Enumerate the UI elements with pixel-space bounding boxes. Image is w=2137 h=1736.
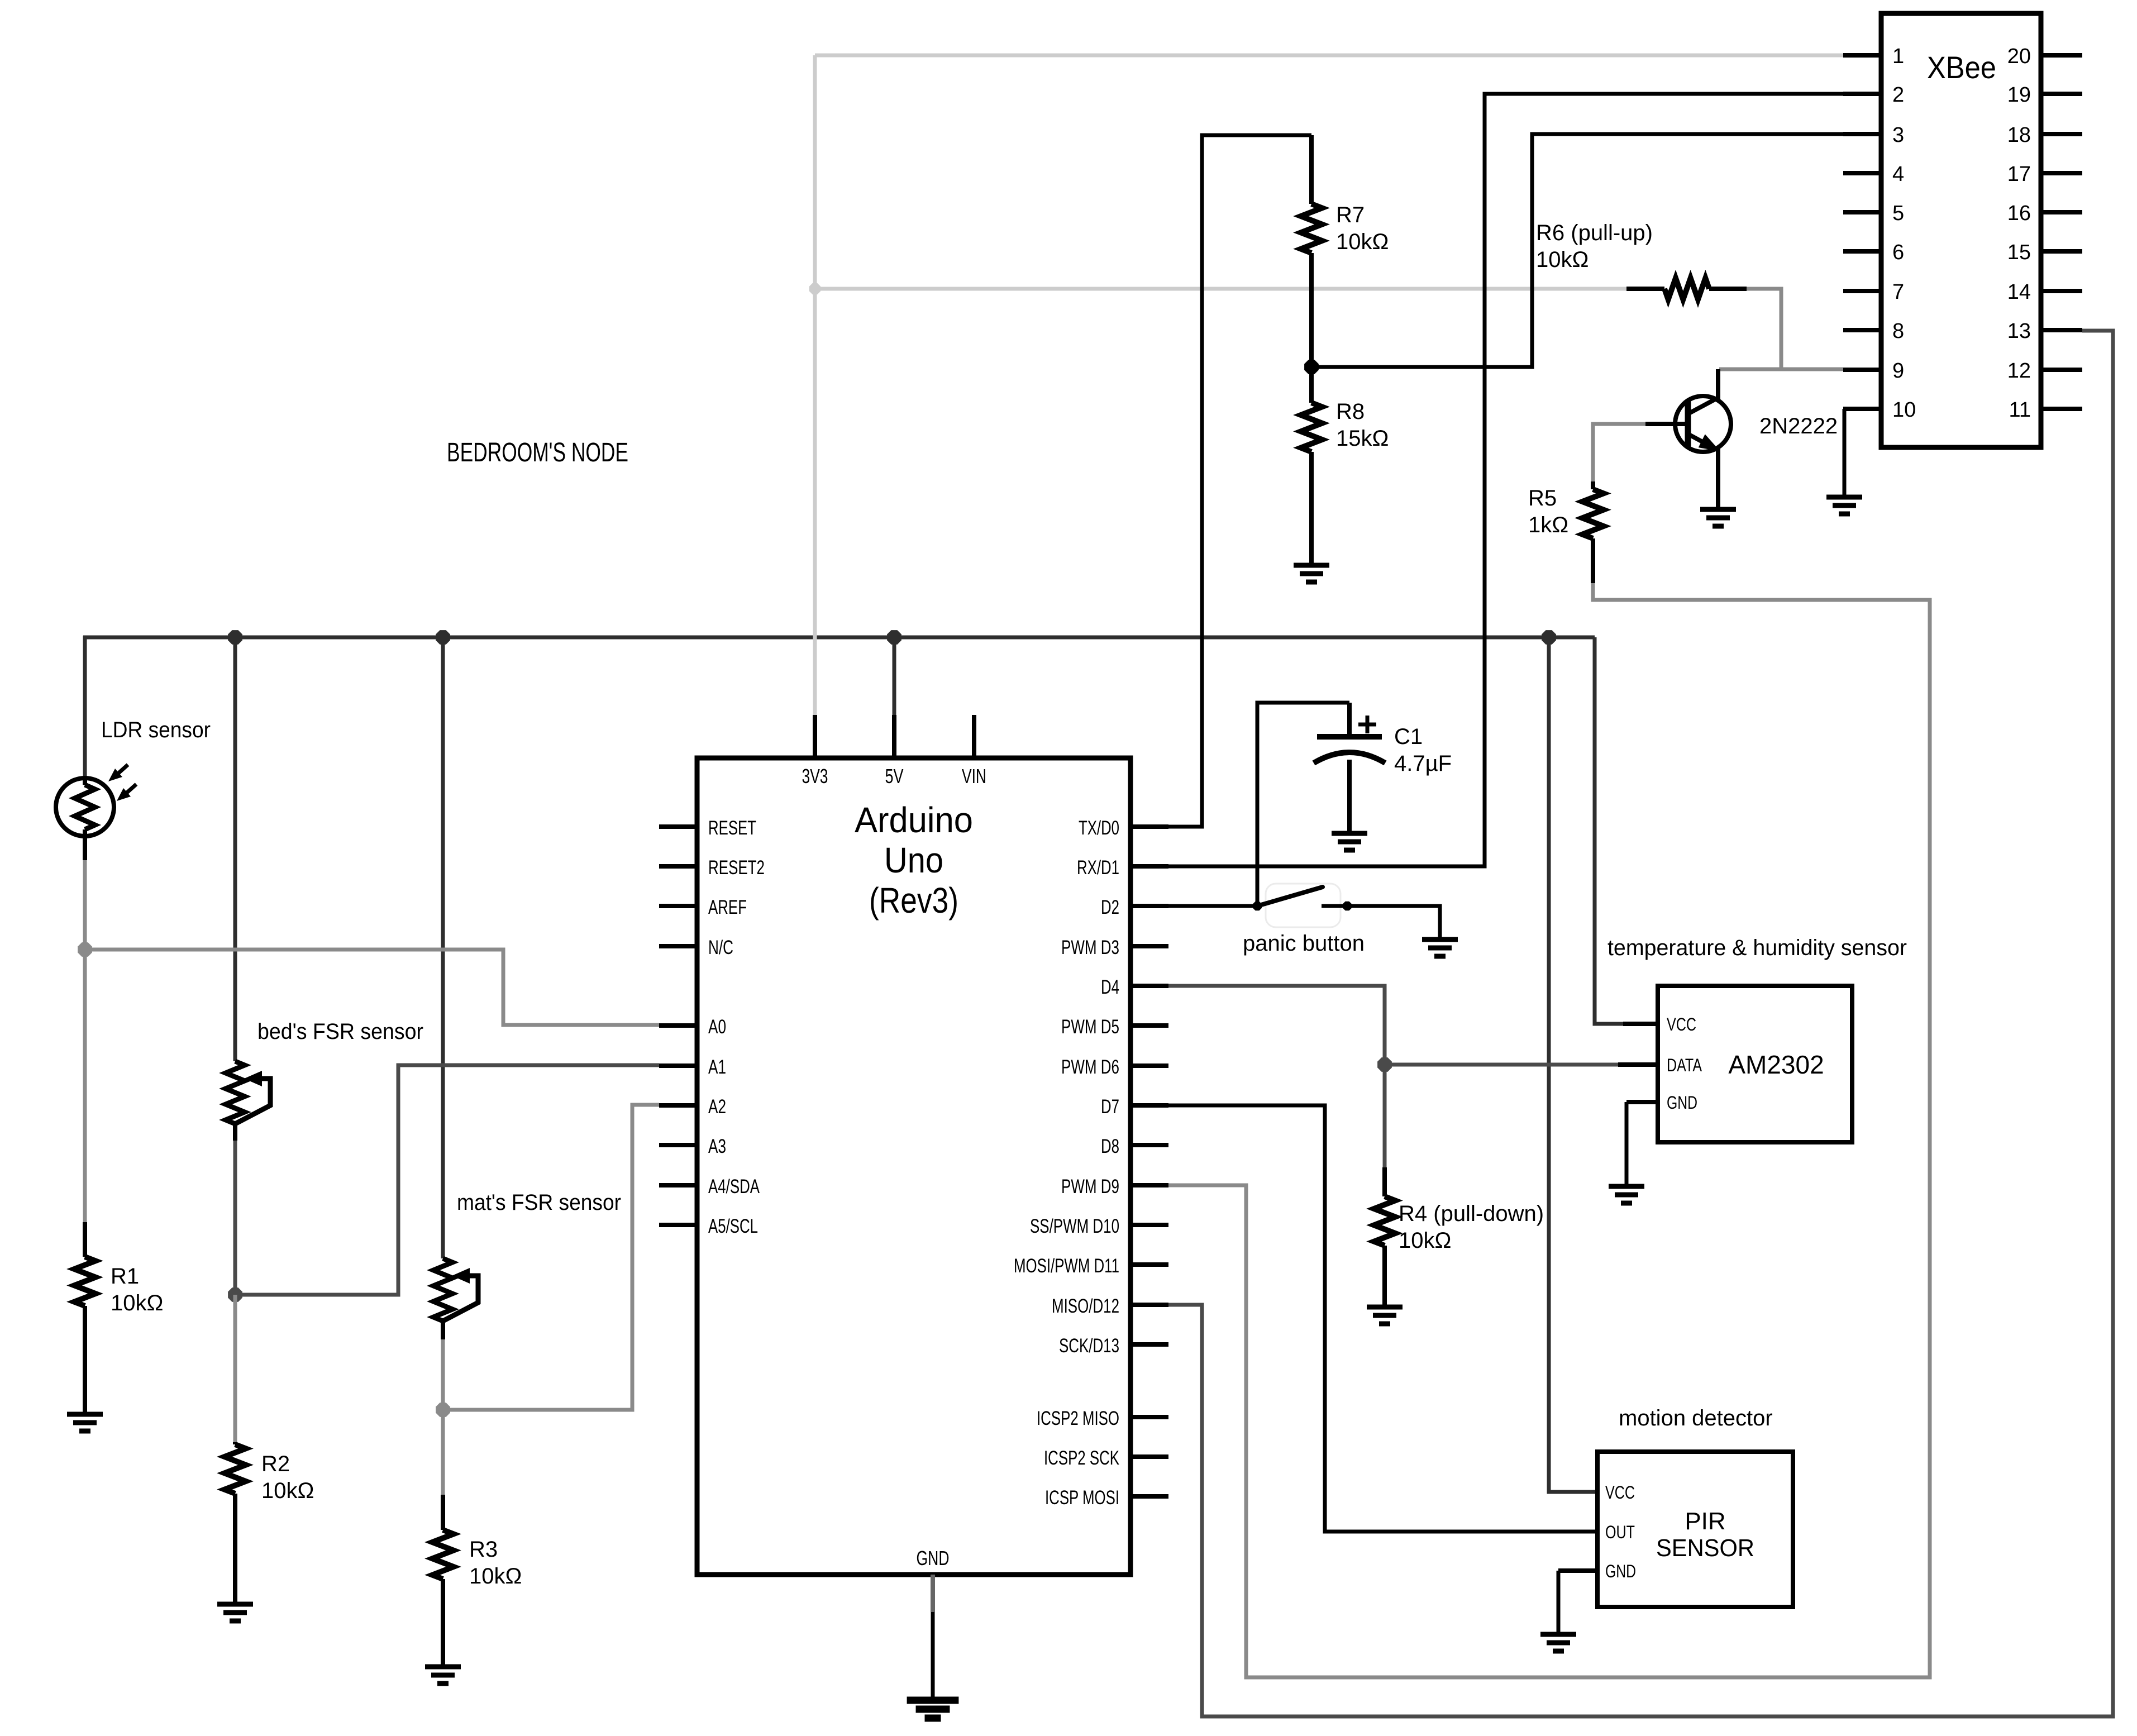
ground below R4 bbox=[1367, 1307, 1403, 1324]
XBee pin 15 bbox=[2041, 249, 2082, 254]
PIR sensor box bbox=[1597, 1452, 1793, 1607]
wire 3V3 vertical from Arduino bbox=[813, 55, 817, 760]
Arduino pin PWM D9 bbox=[1130, 1183, 1168, 1187]
XBee pin 3 bbox=[1843, 132, 1881, 136]
Arduino pin A4/SDA bbox=[659, 1183, 697, 1187]
svg-text:VCC: VCC bbox=[1667, 1014, 1696, 1034]
panic button S1 bbox=[1266, 884, 1341, 927]
ground below Arduino GND bbox=[907, 1700, 959, 1718]
wire D2 to button bbox=[1168, 904, 1257, 908]
ground below R1 bbox=[67, 1414, 103, 1431]
Arduino pin MOSI/PWM D11 bbox=[1130, 1262, 1168, 1267]
wire R4 junction to AM2302 DATA bbox=[1385, 1063, 1618, 1067]
svg-text:SCK/D13: SCK/D13 bbox=[1059, 1335, 1119, 1357]
svg-text:PIR: PIR bbox=[1685, 1508, 1725, 1535]
XBee pin 12 bbox=[2041, 368, 2082, 372]
svg-text:temperature & humidity sensor: temperature & humidity sensor bbox=[1607, 936, 1907, 960]
svg-text:3V3: 3V3 bbox=[802, 765, 828, 788]
svg-text:R3: R3 bbox=[469, 1537, 498, 1562]
wire R4 junction down bbox=[1383, 1065, 1387, 1167]
XBee pin 6 bbox=[1843, 249, 1881, 254]
XBee pin 11 bbox=[2041, 407, 2082, 411]
XBee pin 16 bbox=[2041, 210, 2082, 214]
svg-text:10kΩ: 10kΩ bbox=[469, 1564, 522, 1589]
svg-text:10: 10 bbox=[1892, 398, 1916, 422]
XBee pin 2 bbox=[1843, 92, 1881, 96]
ground below PIR bbox=[1540, 1634, 1576, 1651]
svg-text:SS/PWM D10: SS/PWM D10 bbox=[1030, 1215, 1119, 1237]
node button right contact bbox=[1343, 902, 1352, 911]
PIR pin VCC bbox=[1595, 1490, 1597, 1494]
XBee U2 box bbox=[1881, 13, 2041, 447]
bed FSR sensor bbox=[226, 1061, 245, 1124]
svg-text:5V: 5V bbox=[885, 765, 904, 788]
Arduino pin ICSP MOSI bbox=[1130, 1494, 1168, 1499]
Arduino pin 3V3 bbox=[813, 715, 817, 758]
svg-text:A5/SCL: A5/SCL bbox=[708, 1215, 758, 1237]
XBee pin 7 bbox=[1843, 289, 1881, 293]
mat FSR sensor bbox=[433, 1258, 452, 1321]
wire D7 to PIR OUT bbox=[1168, 1105, 1595, 1532]
LDR light arrows bbox=[117, 765, 128, 774]
ground below 2N2222 emitter bbox=[1700, 509, 1736, 526]
svg-text:R8: R8 bbox=[1336, 399, 1365, 424]
wire LDR to A0 bbox=[85, 860, 659, 1025]
transistor Q1 2N2222 bbox=[1675, 396, 1731, 452]
svg-text:20: 20 bbox=[2007, 45, 2031, 68]
Arduino pin A2 bbox=[659, 1103, 697, 1108]
svg-text:mat's FSR sensor: mat's FSR sensor bbox=[457, 1190, 621, 1215]
node 5V junction at PIR branch bbox=[1542, 630, 1556, 645]
svg-text:PWM D9: PWM D9 bbox=[1061, 1176, 1119, 1198]
XBee pin 9 bbox=[1843, 368, 1881, 372]
Arduino pin SS/PWM D10 bbox=[1130, 1223, 1168, 1227]
XBee pin 13 bbox=[2041, 328, 2082, 332]
svg-text:AREF: AREF bbox=[708, 896, 747, 918]
resistor R7 bbox=[1309, 135, 1314, 204]
wire mat FSR to A2 bbox=[443, 1105, 659, 1410]
svg-text:PWM D6: PWM D6 bbox=[1061, 1056, 1119, 1078]
XBee pin 19 bbox=[2041, 92, 2082, 96]
wire 5V rail to AM2302 VCC bbox=[1595, 637, 1623, 1024]
svg-text:A0: A0 bbox=[708, 1016, 726, 1038]
XBee pin 14 bbox=[2041, 289, 2082, 293]
node 3V3 junction bbox=[809, 283, 821, 294]
wire junction down to R2 bbox=[233, 1295, 237, 1442]
wire D12 to XBee pin 13 bbox=[1168, 331, 2113, 1716]
Arduino pin ICSP2 MISO bbox=[1130, 1415, 1168, 1419]
wire collector node to XBee pin 9 bbox=[1719, 368, 1843, 371]
resistor R4 bbox=[1382, 1167, 1387, 1196]
Arduino pin AREF bbox=[659, 904, 697, 908]
wire junction down to R1 bbox=[83, 950, 87, 1222]
svg-text:12: 12 bbox=[2007, 359, 2031, 383]
svg-text:17: 17 bbox=[2007, 163, 2031, 186]
svg-text:A3: A3 bbox=[708, 1136, 726, 1157]
XBee pin 1 bbox=[1843, 53, 1881, 58]
AM2302 sensor box bbox=[1658, 986, 1852, 1142]
wire bed FSR to A1 bbox=[235, 1065, 659, 1295]
svg-text:4: 4 bbox=[1892, 163, 1904, 186]
svg-text:A2: A2 bbox=[708, 1096, 726, 1118]
svg-text:R2: R2 bbox=[261, 1452, 290, 1476]
svg-text:10kΩ: 10kΩ bbox=[1336, 230, 1389, 254]
wire R6 to collector node bbox=[1747, 289, 1781, 369]
Arduino pin A5/SCL bbox=[659, 1223, 697, 1227]
svg-text:10kΩ: 10kΩ bbox=[1536, 247, 1589, 272]
svg-text:6: 6 bbox=[1892, 241, 1904, 264]
svg-text:RESET2: RESET2 bbox=[708, 857, 765, 879]
svg-text:4.7µF: 4.7µF bbox=[1394, 751, 1452, 776]
ground below R2 bbox=[217, 1604, 253, 1621]
svg-text:BEDROOM'S NODE: BEDROOM'S NODE bbox=[447, 438, 628, 468]
wire RX/D1 to XBee pin 2 bbox=[1168, 94, 1843, 866]
resistor R8 bbox=[1309, 367, 1314, 403]
svg-text:13: 13 bbox=[2007, 319, 2031, 343]
svg-text:bed's FSR sensor: bed's FSR sensor bbox=[257, 1019, 423, 1044]
Arduino pin D8 bbox=[1130, 1143, 1168, 1147]
wire XBee pin 10 to ground bbox=[1843, 409, 1847, 496]
resistor R2 bbox=[233, 1442, 237, 1444]
ground below panic button bbox=[1422, 939, 1458, 956]
svg-text:2: 2 bbox=[1892, 83, 1904, 107]
Arduino pin A3 bbox=[659, 1143, 697, 1147]
ground below AM2302 bbox=[1609, 1186, 1644, 1203]
node 5V junction at Arduino 5V bbox=[887, 630, 901, 645]
svg-text:10kΩ: 10kΩ bbox=[261, 1479, 314, 1503]
node R7-R8 junction bbox=[1304, 360, 1319, 374]
svg-text:2N2222: 2N2222 bbox=[1759, 414, 1838, 438]
ground below XBee pin 10 bbox=[1826, 497, 1862, 514]
resistor R6 bbox=[1626, 287, 1664, 291]
node bed FSR junction bbox=[228, 1287, 242, 1302]
svg-text:18: 18 bbox=[2007, 123, 2031, 147]
wire PIR GND to ground bbox=[1557, 1571, 1561, 1633]
svg-text:PWM D5: PWM D5 bbox=[1061, 1016, 1119, 1038]
Arduino pin A0 bbox=[659, 1023, 697, 1028]
Arduino pin RESET bbox=[659, 824, 697, 829]
XBee pin 10 bbox=[1843, 407, 1881, 411]
svg-text:GND: GND bbox=[917, 1547, 950, 1570]
Arduino pin PWM D5 bbox=[1130, 1023, 1168, 1028]
resistor R3 bbox=[441, 1495, 445, 1530]
svg-text:10kΩ: 10kΩ bbox=[1399, 1228, 1451, 1253]
svg-text:panic button: panic button bbox=[1243, 931, 1365, 956]
svg-text:R7: R7 bbox=[1336, 203, 1365, 227]
wire D4 to R4 junction bbox=[1168, 986, 1385, 1065]
svg-text:VIN: VIN bbox=[962, 765, 986, 788]
svg-text:15kΩ: 15kΩ bbox=[1336, 426, 1389, 451]
svg-text:GND: GND bbox=[1605, 1561, 1636, 1581]
svg-text:RESET: RESET bbox=[708, 817, 756, 839]
XBee pin 8 bbox=[1843, 328, 1881, 332]
svg-text:ICSP2 MISO: ICSP2 MISO bbox=[1037, 1408, 1119, 1429]
ground below R3 bbox=[425, 1667, 461, 1683]
svg-text:ICSP MOSI: ICSP MOSI bbox=[1045, 1487, 1119, 1509]
Arduino pin N/C bbox=[659, 944, 697, 948]
wire AM2302 GND to ground bbox=[1625, 1102, 1629, 1185]
wire mat FSR lead gray bbox=[441, 1338, 445, 1410]
wire 5V rail to bed FSR bbox=[233, 637, 237, 1061]
Arduino pin MISO/D12 bbox=[1130, 1303, 1168, 1307]
AM2302 pin DATA bbox=[1618, 1062, 1658, 1067]
AM2302 pin GND bbox=[1626, 1100, 1658, 1104]
svg-text:A4/SDA: A4/SDA bbox=[708, 1176, 760, 1198]
Arduino pin PWM D3 bbox=[1130, 944, 1168, 948]
node D4-R4-DATA junction bbox=[1377, 1057, 1392, 1072]
Arduino pin SCK/D13 bbox=[1130, 1342, 1168, 1347]
wire 5V rail to LDR bbox=[83, 636, 87, 779]
svg-text:11: 11 bbox=[2009, 398, 2031, 422]
Arduino pin RX/D1 bbox=[1130, 864, 1168, 869]
svg-text:LDR sensor: LDR sensor bbox=[101, 718, 211, 742]
ground below R8 bbox=[1294, 565, 1329, 582]
node 5V junction at bed FSR bbox=[228, 630, 242, 645]
svg-text:15: 15 bbox=[2007, 241, 2031, 264]
Arduino pin A1 bbox=[659, 1063, 697, 1068]
svg-text:AM2302: AM2302 bbox=[1728, 1050, 1824, 1079]
svg-text:GND: GND bbox=[1667, 1093, 1697, 1113]
svg-text:14: 14 bbox=[2007, 280, 2031, 304]
svg-text:D4: D4 bbox=[1101, 976, 1119, 998]
svg-text:VCC: VCC bbox=[1605, 1482, 1635, 1503]
wire 5V rail to PIR VCC bbox=[1549, 637, 1595, 1492]
svg-text:8: 8 bbox=[1892, 319, 1904, 343]
svg-text:motion detector: motion detector bbox=[1619, 1406, 1773, 1430]
PIR pin OUT bbox=[1595, 1529, 1597, 1534]
svg-text:1kΩ: 1kΩ bbox=[1528, 513, 1568, 537]
wire 3V3 to R6 bbox=[815, 287, 1626, 291]
svg-text:R1: R1 bbox=[111, 1264, 139, 1289]
svg-text:Uno: Uno bbox=[884, 840, 943, 880]
wire 3V3 to XBee pin 1 bbox=[815, 54, 1843, 58]
svg-text:SENSOR: SENSOR bbox=[1656, 1534, 1754, 1562]
wire 5V rail bbox=[83, 636, 1595, 640]
svg-text:19: 19 bbox=[2007, 83, 2031, 107]
svg-text:D2: D2 bbox=[1101, 896, 1119, 918]
Arduino pin D2 bbox=[1130, 904, 1168, 908]
node 5V junction at mat FSR bbox=[436, 630, 450, 645]
svg-text:3: 3 bbox=[1892, 123, 1904, 147]
Arduino pin 5V bbox=[892, 715, 896, 758]
wire R7-R8 junction to XBee pin 3 bbox=[1311, 134, 1843, 367]
svg-text:7: 7 bbox=[1892, 280, 1904, 304]
node mat FSR junction bbox=[436, 1403, 450, 1417]
XBee pin 17 bbox=[2041, 171, 2082, 175]
XBee pin 5 bbox=[1843, 210, 1881, 214]
wire 5V rail to Arduino 5V pin bbox=[893, 637, 896, 760]
svg-text:10kΩ: 10kΩ bbox=[111, 1291, 163, 1315]
wire junction down to R3 bbox=[441, 1410, 445, 1495]
LDR sensor photoresistor bbox=[56, 778, 114, 836]
wire bed FSR lead bbox=[233, 1139, 237, 1295]
wire button node to C1 bbox=[1257, 703, 1349, 906]
Arduino pin RESET2 bbox=[659, 864, 697, 869]
capacitor C1 bbox=[1347, 703, 1352, 735]
Arduino Uno U1 box bbox=[697, 758, 1130, 1575]
svg-text:TX/D0: TX/D0 bbox=[1079, 817, 1119, 839]
node LDR-R1 junction bbox=[78, 942, 92, 957]
XBee pin 18 bbox=[2041, 132, 2082, 136]
svg-text:R5: R5 bbox=[1528, 486, 1557, 511]
wire 5V rail to mat FSR bbox=[441, 637, 445, 1258]
Arduino pin ICSP2 SCK bbox=[1130, 1454, 1168, 1459]
XBee pin 4 bbox=[1843, 171, 1881, 175]
node button left contact bbox=[1253, 902, 1262, 911]
Arduino pin PWM D6 bbox=[1130, 1063, 1168, 1068]
AM2302 pin VCC bbox=[1623, 1022, 1658, 1026]
resistor R1 bbox=[83, 1222, 87, 1257]
svg-text:DATA: DATA bbox=[1667, 1055, 1702, 1075]
Arduino pin D7 bbox=[1130, 1103, 1168, 1108]
wire R5 top to transistor base bbox=[1593, 424, 1645, 481]
svg-text:(Rev3): (Rev3) bbox=[869, 880, 958, 921]
svg-text:PWM D3: PWM D3 bbox=[1061, 937, 1119, 958]
svg-text:ICSP2 SCK: ICSP2 SCK bbox=[1044, 1447, 1119, 1469]
wire TX/D0 to R7 top bbox=[1168, 135, 1311, 827]
Arduino pin TX/D0 bbox=[1130, 824, 1168, 829]
svg-text:N/C: N/C bbox=[708, 937, 733, 958]
svg-text:XBee: XBee bbox=[1927, 50, 1996, 85]
svg-text:A1: A1 bbox=[708, 1056, 726, 1078]
Arduino pin VIN bbox=[972, 715, 976, 758]
Arduino pin D4 bbox=[1130, 984, 1168, 988]
svg-text:OUT: OUT bbox=[1605, 1522, 1635, 1542]
ground below C1 bbox=[1332, 833, 1367, 850]
svg-text:R6 (pull-up): R6 (pull-up) bbox=[1536, 221, 1653, 245]
svg-text:9: 9 bbox=[1892, 359, 1904, 383]
svg-text:R4 (pull-down): R4 (pull-down) bbox=[1399, 1201, 1544, 1226]
svg-text:Arduino: Arduino bbox=[855, 800, 973, 840]
PIR pin GND bbox=[1558, 1568, 1597, 1573]
XBee pin 20 bbox=[2041, 53, 2082, 58]
svg-text:D8: D8 bbox=[1101, 1136, 1119, 1157]
resistor R5 bbox=[1591, 481, 1595, 489]
svg-text:C1: C1 bbox=[1394, 724, 1423, 749]
svg-text:D7: D7 bbox=[1101, 1096, 1119, 1118]
wire D9 to R5 loop bbox=[1168, 582, 1930, 1677]
wire Arduino GND to ground bbox=[931, 1612, 935, 1698]
svg-text:16: 16 bbox=[2007, 202, 2031, 225]
wire button to ground bbox=[1322, 906, 1440, 938]
svg-text:MISO/D12: MISO/D12 bbox=[1052, 1295, 1119, 1317]
svg-text:5: 5 bbox=[1892, 202, 1904, 225]
svg-text:1: 1 bbox=[1892, 45, 1904, 68]
svg-text:MOSI/PWM D11: MOSI/PWM D11 bbox=[1014, 1255, 1119, 1277]
svg-text:RX/D1: RX/D1 bbox=[1077, 857, 1119, 879]
